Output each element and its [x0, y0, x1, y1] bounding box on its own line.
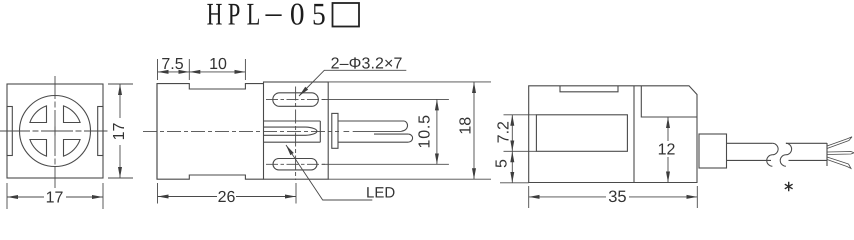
svg-text:5: 5 [312, 0, 326, 32]
dimension 10.5: extension lines [322, 99, 449, 164]
end view cable break curve 1 [767, 143, 778, 166]
dimension 10: dimension line [189, 71, 245, 73]
end view window [536, 115, 627, 152]
dimension 35: dimension line [529, 196, 606, 198]
asterisk [785, 182, 793, 191]
title HPL-05 [207, 0, 326, 32]
front view quadrant BL [30, 140, 47, 157]
side view nut block [332, 113, 338, 148]
dimension 18: dimension line [473, 82, 475, 179]
title placeholder box [333, 3, 360, 27]
side view barrel bullet [264, 127, 317, 135]
svg-text:LED: LED [366, 184, 395, 201]
end view divider [633, 86, 635, 183]
side view bottom slot h-centerline [266, 163, 325, 165]
side view cable centerline [344, 130, 402, 132]
side view main centerline [143, 130, 339, 132]
front view left tab [7, 107, 12, 156]
front view center cross [51, 127, 60, 136]
dimension 12: dimension line [667, 117, 669, 141]
svg-text:L: L [247, 0, 261, 32]
front view quadrant TL [30, 106, 47, 123]
dimension 26: extension lines [158, 183, 297, 204]
dimension 17 bottom: extension lines [7, 183, 103, 209]
dimension 35: extension lines [529, 186, 698, 208]
end view cable break curve 2 [780, 143, 791, 166]
svg-text:5: 5 [493, 159, 510, 168]
front view vertical centerline [54, 76, 56, 188]
svg-text:35: 35 [608, 188, 626, 206]
svg-text:17: 17 [46, 189, 64, 206]
dimension 10: extension line [244, 59, 246, 80]
dimension 17 right: dimension line [119, 84, 121, 118]
end view body outline [529, 86, 697, 183]
label LED leader [286, 145, 372, 200]
dimension 26: dimension line [158, 196, 218, 198]
dimension 7.2: extension lines [500, 115, 537, 183]
side view cable end tongue lower [408, 134, 412, 142]
svg-text:2–Φ3.2×7: 2–Φ3.2×7 [331, 56, 403, 73]
dimension 17 right: extension lines [108, 84, 133, 178]
svg-text:H: H [207, 0, 223, 32]
svg-text:10.5: 10.5 [417, 114, 434, 148]
side view cable bottom line [338, 141, 408, 143]
side view slots v-centerline [295, 87, 297, 181]
front view quadrant TR [64, 106, 81, 123]
dimension 10.5: dimension line [436, 99, 438, 164]
svg-text:7.2: 7.2 [495, 121, 512, 143]
label 2-phi3.2x7 leader [299, 70, 406, 96]
dimension 7.5: extension lines [158, 59, 190, 80]
dimension 7.2: dimension line [511, 115, 513, 152]
end view top notch [560, 86, 618, 92]
side view body outline [157, 84, 264, 180]
front view circle [20, 96, 91, 167]
dimension 5: dimension line [511, 151, 513, 183]
svg-text:26: 26 [218, 189, 236, 206]
svg-text:–: – [265, 0, 282, 29]
dimension 17 bottom: dimension line [7, 196, 44, 198]
svg-text:12: 12 [658, 141, 676, 158]
end view wire 3 [827, 157, 851, 169]
svg-text:17: 17 [111, 123, 128, 141]
svg-text:P: P [228, 0, 241, 32]
svg-text:18: 18 [458, 117, 475, 135]
end view top-right box [641, 86, 697, 117]
end view wire 1 [827, 137, 852, 149]
front view quadrant BR [64, 140, 81, 157]
svg-text:10: 10 [209, 56, 227, 73]
svg-text:7.5: 7.5 [161, 56, 183, 73]
end view connector block [699, 134, 727, 168]
end view cable segment 2 [786, 143, 827, 166]
side view cable top line [338, 120, 404, 122]
end view cable top line [727, 142, 773, 144]
end view cable bottom line [727, 159, 772, 161]
front view right tab [98, 107, 103, 156]
svg-text:0: 0 [290, 0, 305, 32]
side view barrel channel [264, 121, 321, 142]
side view top slot h-centerline [266, 98, 325, 100]
side view cable inner line [374, 133, 408, 135]
front view horizontal centerline [0, 130, 108, 132]
side view bottom slot [273, 159, 317, 170]
side view bracket [264, 82, 329, 179]
dimension 7.5: dimension line [158, 71, 190, 73]
end view wire 2 [827, 152, 854, 155]
side view top slot 2-3.2x7 [273, 93, 319, 107]
side view cable end tongue upper [402, 121, 408, 131]
side view body left edge [156, 84, 158, 180]
dimension 18: extension lines [328, 82, 491, 179]
front view outer square [7, 84, 103, 178]
